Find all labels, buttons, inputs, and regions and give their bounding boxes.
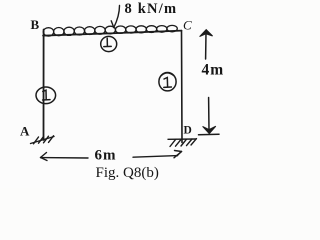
svg-text:8 kN/m: 8 kN/m bbox=[125, 1, 178, 17]
svg-text:A: A bbox=[20, 124, 30, 139]
svg-text:D: D bbox=[184, 125, 192, 137]
svg-text:B: B bbox=[31, 17, 40, 32]
svg-text:Fig. Q8(b): Fig. Q8(b) bbox=[96, 165, 159, 181]
svg-text:6m: 6m bbox=[95, 148, 117, 164]
svg-text:C: C bbox=[183, 18, 192, 33]
svg-text:4m: 4m bbox=[202, 62, 225, 79]
